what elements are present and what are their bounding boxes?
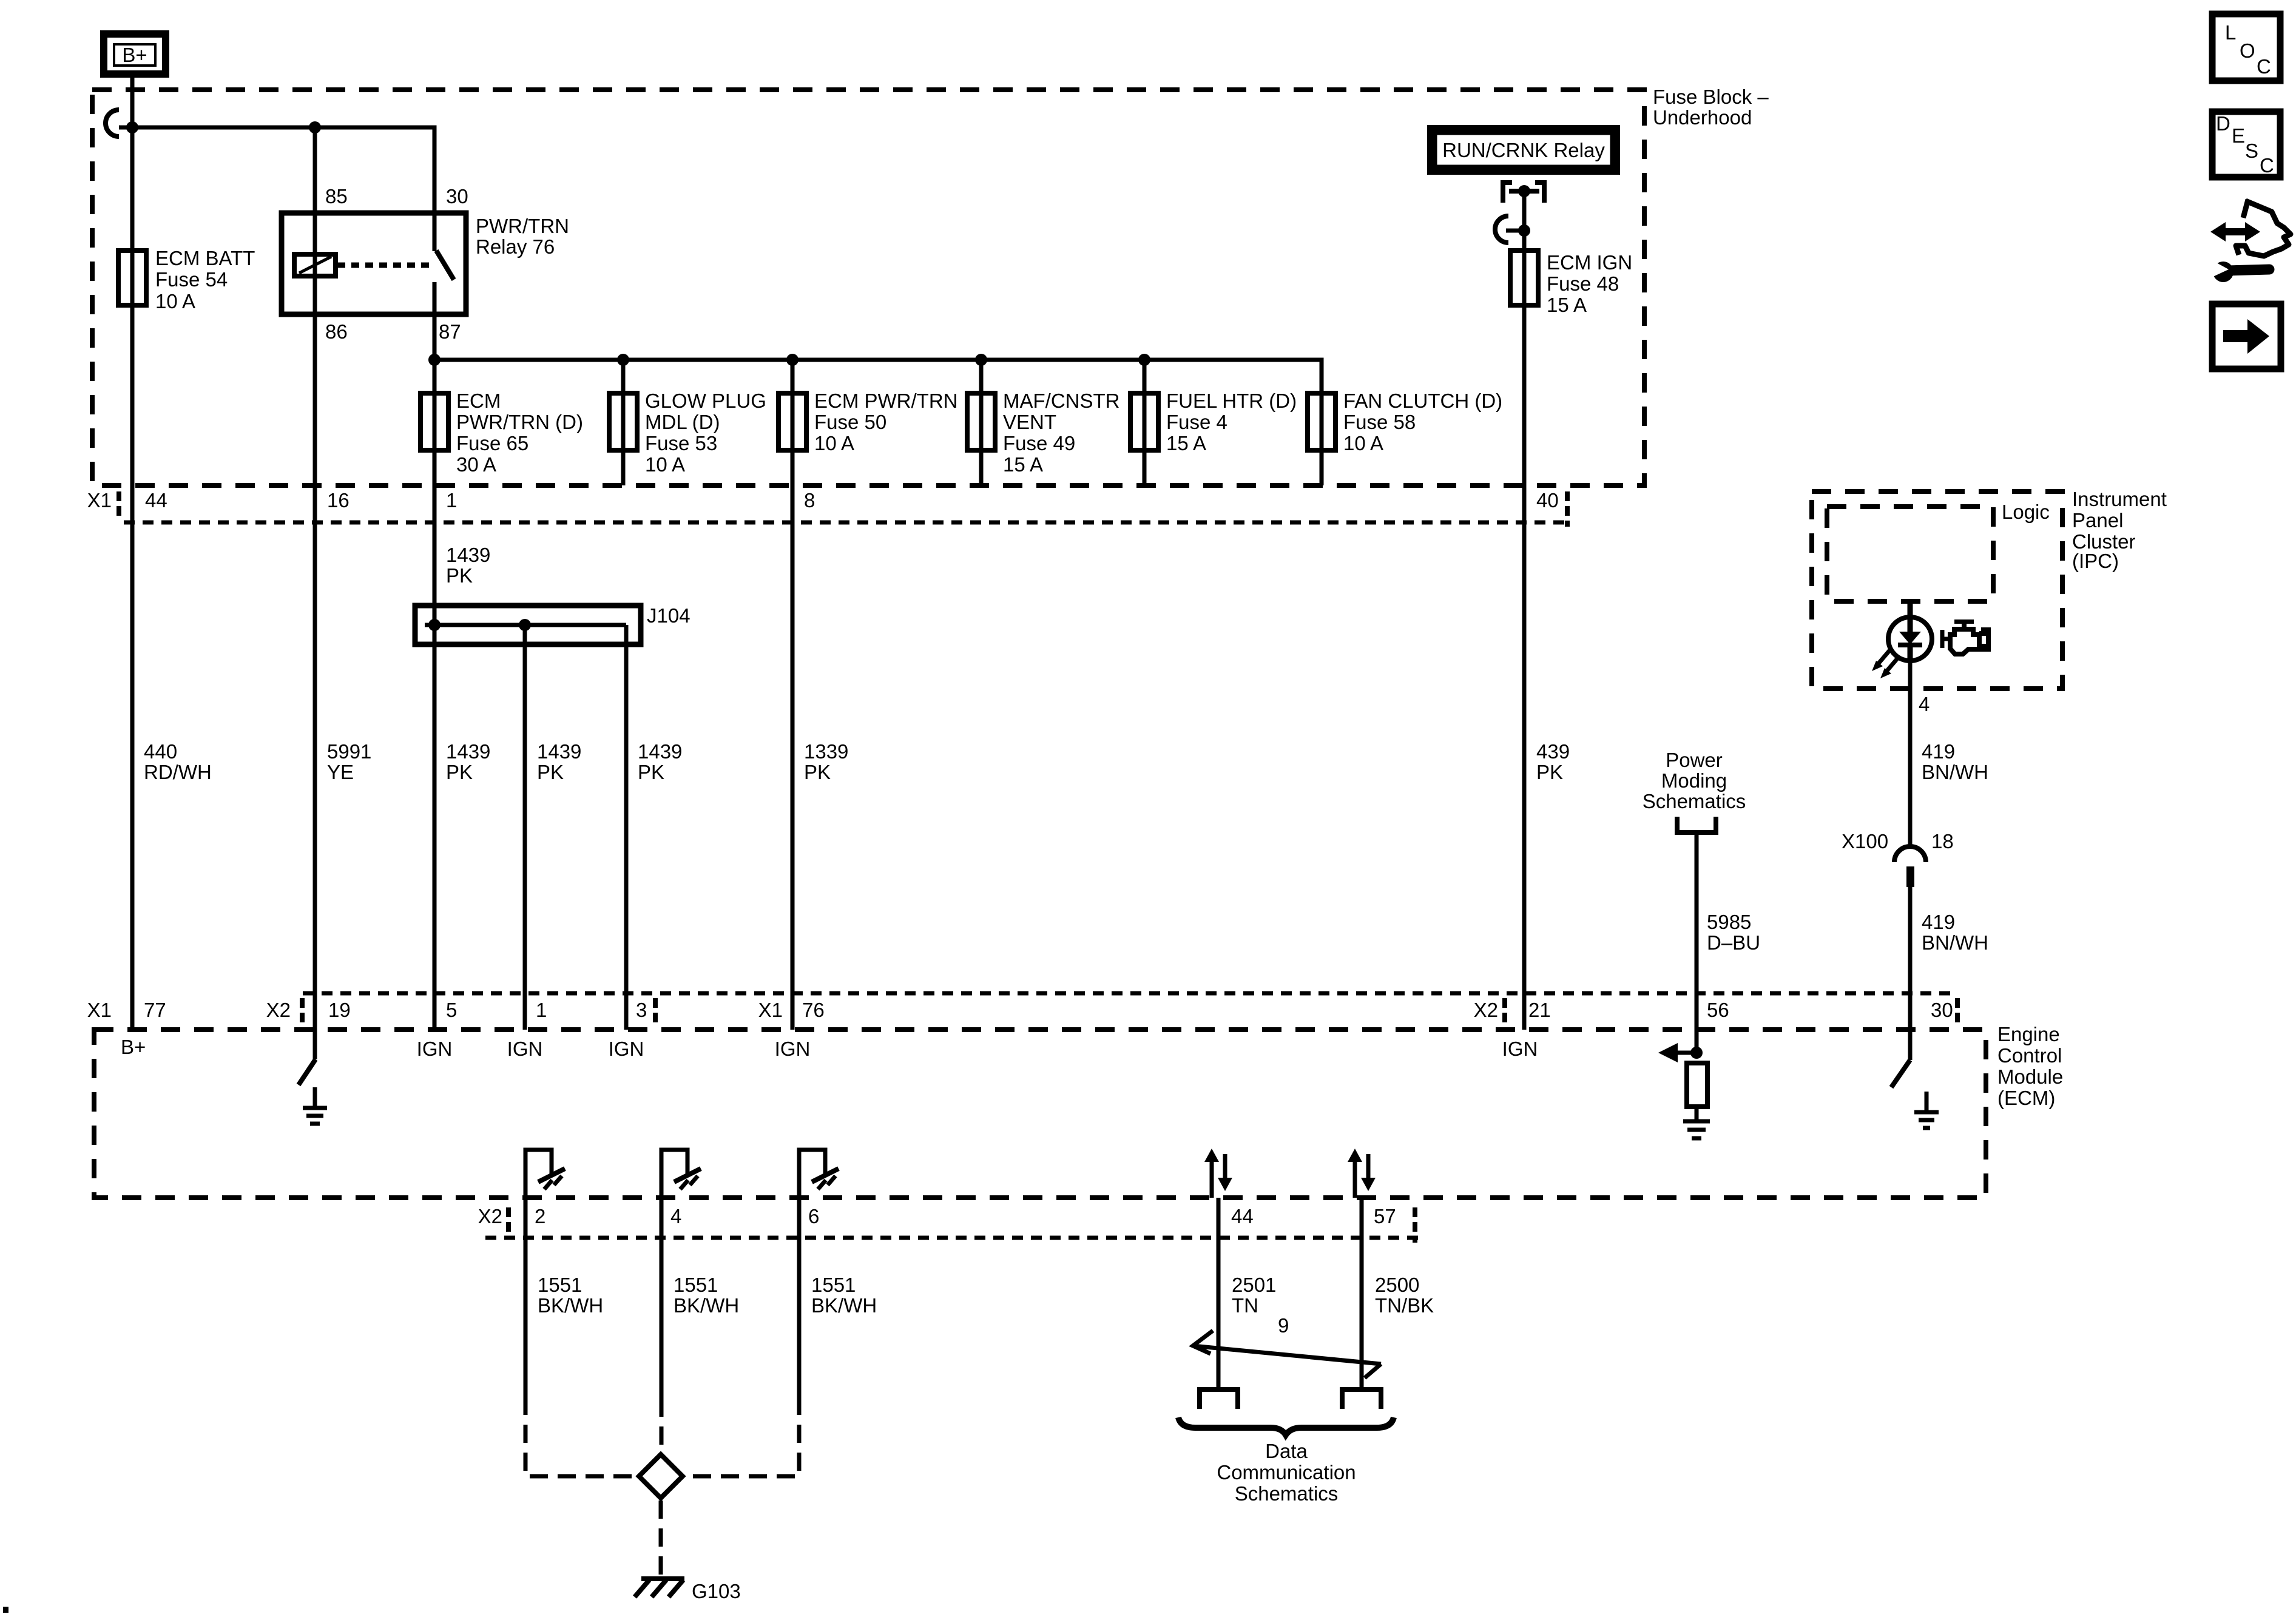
wire J104 output 1 to X2-5 [433, 625, 437, 1030]
svg-text:BN/WH: BN/WH [1922, 761, 1988, 783]
svg-text:TN/BK: TN/BK [1375, 1294, 1434, 1317]
node junction dot relay coil branch [309, 121, 321, 133]
svg-text:10 A: 10 A [155, 290, 195, 312]
relay PWR/TRN Relay 76 box [282, 213, 466, 314]
svg-text:X1: X1 [87, 999, 112, 1021]
svg-text:1439: 1439 [446, 740, 490, 763]
Fuse Block - Underhood boundary box [92, 90, 1644, 485]
svg-text:Fuse 50: Fuse 50 [814, 411, 886, 433]
relay switch blade [436, 251, 454, 280]
svg-text:21: 21 [1528, 999, 1551, 1021]
svg-text:BK/WH: BK/WH [811, 1294, 877, 1317]
svg-text:10 A: 10 A [814, 432, 854, 454]
svg-text:8: 8 [804, 489, 815, 511]
wire ECM IGN feed (439 PK) [1522, 191, 1527, 1030]
ground symbol X2-30 [1914, 1092, 1939, 1128]
svg-text:FUEL HTR (D): FUEL HTR (D) [1166, 390, 1297, 412]
stray period mark [3, 1607, 8, 1613]
svg-text:ECM PWR/TRN: ECM PWR/TRN [814, 390, 957, 412]
fuse FAN CLUTCH (D) Fuse 58 [1308, 390, 1502, 454]
chassis ground loop X2-4 [661, 1150, 701, 1198]
ground G103 [635, 1579, 741, 1602]
node dots on fuse bus [428, 354, 441, 366]
svg-text:85: 85 [325, 185, 348, 208]
svg-text:PK: PK [446, 564, 473, 587]
svg-text:1551: 1551 [811, 1274, 856, 1296]
svg-text:FAN CLUTCH (D): FAN CLUTCH (D) [1343, 390, 1502, 412]
connector X1 bracket [116, 491, 121, 517]
svg-text:B+: B+ [121, 1036, 146, 1058]
svg-text:2501: 2501 [1232, 1274, 1276, 1296]
wire 1439 PK from fuse 65 pin 1 [434, 485, 490, 625]
connector X1 fuse block row dotted line [124, 521, 1572, 525]
svg-text:57: 57 [1374, 1205, 1396, 1227]
svg-text:ECM: ECM [456, 390, 501, 412]
svg-text:Panel: Panel [2072, 509, 2123, 532]
ground symbol below resistor [1683, 1107, 1710, 1138]
node dot RUN/CRNK output [1518, 185, 1530, 197]
ground net dashed link middle [660, 1399, 664, 1452]
svg-text:RD/WH: RD/WH [144, 761, 212, 783]
connector bracket pin 3 [653, 998, 658, 1024]
svg-text:6: 6 [808, 1205, 819, 1227]
chassis ground loop X2-6 [799, 1150, 839, 1198]
fuse GLOW PLUG MDL (D) Fuse 53 [609, 360, 766, 485]
twisted pair marker 9 [1193, 1314, 1381, 1378]
LED light emission arrows [1872, 650, 1899, 678]
svg-text:30 A: 30 A [456, 453, 496, 476]
wire logic to LED [1908, 601, 1913, 632]
fuse ECM PWR/TRN (D) Fuse 65 [420, 360, 583, 485]
wire 419 BN/WH to ECM X2-30 [1910, 887, 1988, 1060]
svg-text:1: 1 [536, 999, 547, 1021]
wire J104 output 2 to X2-1 [523, 625, 527, 1030]
off-page hook at B+ branch [106, 110, 119, 137]
svg-text:4: 4 [1919, 693, 1930, 715]
svg-text:Relay 76: Relay 76 [476, 235, 555, 258]
wire LED to pin 4 [1910, 661, 1930, 848]
inline connector X100 pin 18 [1842, 830, 1954, 887]
svg-text:Communication: Communication [1217, 1461, 1356, 1484]
svg-text:Instrument: Instrument [2072, 488, 2167, 510]
connector bracket pin 57 [1413, 1207, 1417, 1243]
svg-text:S: S [2245, 140, 2258, 162]
node junction dot B+/440 [126, 121, 138, 133]
ground net dashed to G103 [659, 1501, 663, 1577]
ECM internal net names [121, 1036, 1538, 1060]
serial data arrows pin 44 [1204, 1149, 1232, 1198]
svg-text:O: O [2240, 39, 2255, 62]
ground net dashed link left [525, 1397, 636, 1476]
svg-text:10 A: 10 A [1343, 432, 1383, 454]
off-page hook at RUN/CRNK output [1495, 216, 1524, 243]
RUN/CRNK relay output terminal bracket [1503, 183, 1544, 203]
ECM internal switch at X2-30 [1891, 1060, 1910, 1087]
svg-text:15 A: 15 A [1003, 453, 1043, 476]
wire 1339 PK fuse 50 to X1-76 [791, 485, 795, 1030]
LED indicator (MIL) [1888, 617, 1932, 661]
wire 1551 BK/WH (2) [661, 1198, 739, 1399]
svg-text:419: 419 [1922, 740, 1955, 763]
wire relay 87 down to bus [433, 282, 437, 393]
svg-text:X2: X2 [1474, 999, 1498, 1021]
svg-text:BK/WH: BK/WH [538, 1294, 603, 1317]
connector ECM bottom dotted row [485, 1236, 1418, 1240]
ECM boundary box [94, 1030, 1986, 1198]
fuse FUEL HTR (D) Fuse 4 [1130, 360, 1297, 485]
svg-text:19: 19 [328, 999, 351, 1021]
svg-text:G103: G103 [692, 1580, 741, 1602]
relay pin labels 85 30 86 87 [325, 185, 468, 343]
svg-text:Power: Power [1666, 749, 1723, 771]
svg-text:BK/WH: BK/WH [674, 1294, 739, 1317]
svg-text:77: 77 [144, 999, 166, 1021]
svg-text:Schematics: Schematics [1643, 790, 1746, 812]
svg-text:56: 56 [1707, 999, 1729, 1021]
svg-text:40: 40 [1536, 489, 1559, 511]
svg-text:Data: Data [1265, 1440, 1308, 1462]
connector bracket X2 bottom [506, 1207, 511, 1233]
connector bracket X2-21 [1502, 998, 1507, 1024]
serial data arrows pin 57 [1348, 1149, 1376, 1198]
svg-text:X1: X1 [87, 489, 112, 511]
svg-text:Fuse 4: Fuse 4 [1166, 411, 1227, 433]
svg-text:X2: X2 [478, 1205, 502, 1227]
svg-text:Control: Control [1997, 1044, 2062, 1067]
svg-text:MAF/CNSTR: MAF/CNSTR [1003, 390, 1120, 412]
svg-text:Module: Module [1997, 1065, 2063, 1088]
svg-text:4: 4 [670, 1205, 681, 1227]
svg-text:B+: B+ [122, 44, 147, 66]
connector bracket pin 30 [1955, 998, 1960, 1024]
svg-text:10 A: 10 A [645, 453, 685, 476]
IPC label [2072, 488, 2167, 572]
wire J104 output 3 to X2-3 [624, 625, 629, 1030]
svg-text:X2: X2 [266, 999, 291, 1021]
svg-text:IGN: IGN [507, 1038, 543, 1060]
Fuse Block - Underhood label [1653, 86, 1769, 129]
wire 5985 D-BU [1697, 832, 1760, 1053]
svg-text:44: 44 [1231, 1205, 1254, 1227]
splice diamond G103 net [639, 1454, 683, 1498]
svg-text:1551: 1551 [538, 1274, 582, 1296]
svg-text:3: 3 [636, 999, 647, 1021]
svg-text:X1: X1 [758, 999, 783, 1021]
svg-text:PWR/TRN: PWR/TRN [476, 215, 569, 237]
fuse ECM IGN Fuse 48 [1510, 251, 1632, 316]
Power Moding Schematics label [1643, 749, 1746, 812]
svg-text:15 A: 15 A [1547, 294, 1587, 316]
wire label 5991 YE [327, 740, 371, 783]
brace Data Communication [1178, 1417, 1394, 1435]
icon forward arrow box [2212, 304, 2281, 369]
engine icon (MIL symbol) [1942, 619, 1988, 654]
svg-text:PK: PK [1536, 761, 1563, 783]
svg-text:30: 30 [1931, 999, 1953, 1021]
node dot hook junction [1518, 224, 1530, 237]
svg-text:MDL (D): MDL (D) [645, 411, 720, 433]
svg-text:IGN: IGN [609, 1038, 644, 1060]
wire 1551 BK/WH (3) [799, 1198, 877, 1397]
chassis ground loop X2-2 [525, 1150, 565, 1198]
wire B+ horizontal bus to relay [119, 127, 434, 251]
svg-text:Fuse 49: Fuse 49 [1003, 432, 1075, 454]
svg-text:1: 1 [446, 489, 457, 511]
svg-text:J104: J104 [647, 604, 690, 627]
wire label 1439 PK (a) [446, 740, 490, 783]
svg-text:Fuse 53: Fuse 53 [645, 432, 717, 454]
wire 2501 TN [1218, 1198, 1276, 1389]
svg-text:C: C [2260, 154, 2274, 177]
relay coil-contact dashed link [337, 263, 434, 268]
off-page staple Power Moding [1677, 817, 1716, 832]
svg-text:16: 16 [327, 489, 349, 511]
ECM internal resistor [1687, 1063, 1707, 1107]
svg-text:PWR/TRN (D): PWR/TRN (D) [456, 411, 583, 433]
wire label 1439 PK (b) [537, 740, 581, 783]
wire B+ feed (440 RD/WH) vertical [130, 74, 135, 1030]
svg-text:E: E [2232, 124, 2245, 147]
svg-text:87: 87 [439, 320, 461, 343]
svg-text:Fuse Block –: Fuse Block – [1653, 86, 1769, 108]
terminal staple 2500 [1342, 1389, 1381, 1409]
B+ power symbol [104, 34, 166, 74]
svg-text:D–BU: D–BU [1707, 931, 1760, 954]
svg-text:44: 44 [145, 489, 167, 511]
ECM internal arrow left from 5985 [1658, 1043, 1697, 1062]
svg-text:PK: PK [638, 761, 664, 783]
svg-text:L: L [2225, 21, 2236, 44]
svg-text:5991: 5991 [327, 740, 371, 763]
svg-text:YE: YE [327, 761, 354, 783]
wire 1551 BK/WH (1) [525, 1198, 603, 1397]
svg-text:Moding: Moding [1661, 769, 1727, 792]
svg-text:30: 30 [446, 185, 468, 208]
svg-text:1551: 1551 [674, 1274, 718, 1296]
svg-text:VENT: VENT [1003, 411, 1056, 433]
IPC Logic box [1827, 501, 2050, 601]
icon DESC box [2212, 112, 2280, 177]
relay RUN/CRNK Relay box [1431, 129, 1616, 171]
wire label 440 RD/WH [144, 740, 212, 783]
svg-text:419: 419 [1922, 911, 1955, 933]
svg-text:Logic: Logic [2002, 501, 2050, 523]
ECM label [1997, 1023, 2063, 1109]
svg-text:Fuse 58: Fuse 58 [1343, 411, 1416, 433]
svg-text:X100: X100 [1842, 830, 1888, 852]
svg-text:5985: 5985 [1707, 911, 1751, 933]
svg-text:439: 439 [1536, 740, 1570, 763]
svg-text:IGN: IGN [775, 1038, 811, 1060]
relay coil [294, 254, 336, 276]
Instrument Panel Cluster boundary box [1812, 491, 2062, 689]
svg-text:D: D [2216, 112, 2230, 135]
svg-text:TN: TN [1232, 1294, 1258, 1317]
svg-text:2500: 2500 [1375, 1274, 1419, 1296]
node dot 5985 junction [1690, 1047, 1703, 1059]
svg-text:2: 2 [535, 1205, 545, 1227]
svg-text:(IPC): (IPC) [2072, 550, 2119, 572]
svg-text:86: 86 [325, 320, 348, 343]
icon diagnostic arrow-wrench [2210, 200, 2291, 282]
fuse ECM PWR/TRN Fuse 50 [778, 360, 957, 485]
svg-text:1439: 1439 [638, 740, 682, 763]
wire relay coil feed (pin 85) [313, 127, 317, 276]
svg-text:18: 18 [1931, 830, 1954, 852]
svg-text:RUN/CRNK Relay: RUN/CRNK Relay [1442, 139, 1605, 161]
ECM internal switch to ground at X2-19 [299, 1059, 316, 1085]
wire label 419 BN/WH upper [1922, 740, 1988, 783]
svg-text:(ECM): (ECM) [1997, 1087, 2055, 1109]
ground net dashed link right [685, 1397, 799, 1476]
svg-text:IGN: IGN [1502, 1038, 1538, 1060]
svg-text:IGN: IGN [417, 1038, 453, 1060]
svg-text:1439: 1439 [537, 740, 581, 763]
svg-text:Fuse 54: Fuse 54 [155, 268, 228, 291]
svg-text:Engine: Engine [1997, 1023, 2060, 1045]
fuse MAF/CNSTR VENT Fuse 49 [967, 360, 1120, 485]
svg-text:Underhood: Underhood [1653, 106, 1752, 129]
splice pack J104 [415, 604, 690, 644]
Data Communication Schematics label [1217, 1440, 1356, 1505]
svg-text:PK: PK [537, 761, 564, 783]
fuse ECM BATT Fuse 54 [118, 247, 255, 312]
wire label 439 PK [1536, 740, 1570, 783]
svg-text:9: 9 [1278, 1314, 1289, 1337]
wire 2500 TN/BK [1362, 1198, 1434, 1389]
svg-text:PK: PK [446, 761, 473, 783]
svg-text:1439: 1439 [446, 544, 490, 566]
connector ECM pin labels [87, 999, 1953, 1021]
svg-text:GLOW PLUG: GLOW PLUG [645, 390, 766, 412]
connector X1 pin labels row [87, 489, 1559, 511]
svg-text:ECM IGN: ECM IGN [1547, 251, 1632, 274]
svg-text:1339: 1339 [804, 740, 848, 763]
connector ECM top dotted row [303, 991, 1957, 996]
svg-text:BN/WH: BN/WH [1922, 931, 1988, 954]
svg-text:76: 76 [802, 999, 825, 1021]
wire fuse bus after relay [434, 360, 1322, 485]
ground symbol X2-19 [303, 1087, 327, 1124]
svg-text:PK: PK [804, 761, 831, 783]
wire label 1439 PK (c) [638, 740, 682, 783]
relay name label [476, 215, 569, 258]
wire label 1339 PK [804, 740, 848, 783]
node J104 dot 2 [519, 619, 531, 631]
terminal staple 2501 [1200, 1389, 1238, 1409]
svg-text:15 A: 15 A [1166, 432, 1206, 454]
connector pin 40 bracket [1565, 491, 1570, 527]
wire relay 86 to ECM X2-19 (5991 YE) [313, 254, 317, 1059]
connector ECM bottom pin labels [478, 1205, 1396, 1227]
svg-text:5: 5 [446, 999, 457, 1021]
svg-text:Fuse 48: Fuse 48 [1547, 272, 1619, 295]
node J104 dot 1 [428, 619, 441, 631]
icon LOC box [2212, 14, 2280, 81]
svg-text:Fuse 65: Fuse 65 [456, 432, 528, 454]
connector bracket X2-19 [300, 998, 305, 1024]
svg-text:ECM BATT: ECM BATT [155, 247, 255, 269]
svg-text:440: 440 [144, 740, 177, 763]
svg-text:C: C [2257, 55, 2271, 78]
svg-text:Schematics: Schematics [1235, 1482, 1339, 1505]
